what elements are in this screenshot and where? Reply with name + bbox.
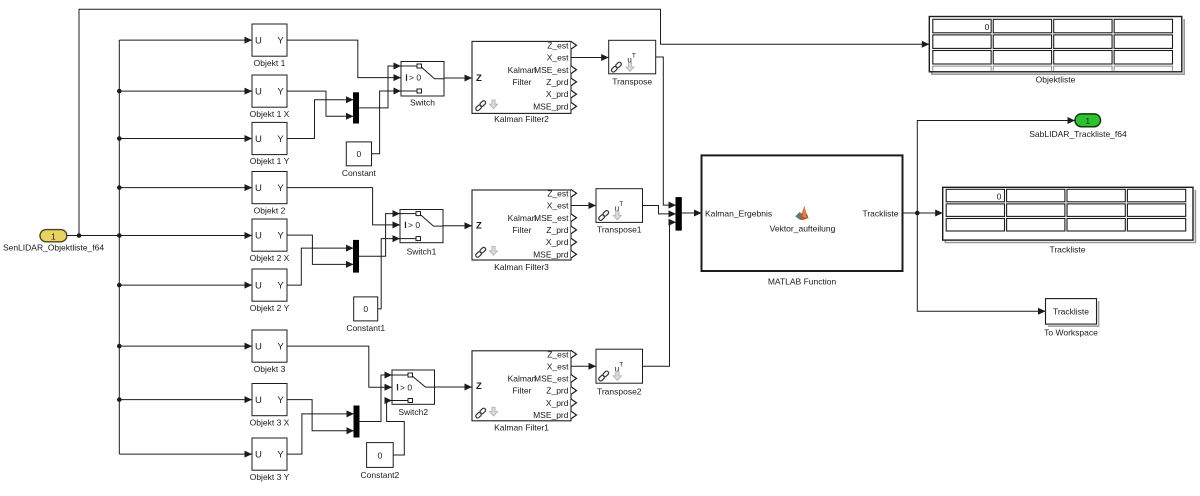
wire branch to To Workspace bbox=[917, 213, 1045, 311]
wire Constant2 to Switch2 in3 bbox=[387, 401, 405, 456]
svg-text:Objekt 1 X: Objekt 1 X bbox=[250, 109, 290, 119]
junction dot bus at Objekt 3 X bbox=[117, 397, 122, 402]
wire bus to Objekt 1 bbox=[119, 39, 252, 41]
svg-text:MSE_est: MSE_est bbox=[534, 374, 569, 384]
svg-text:> 0: > 0 bbox=[409, 73, 421, 83]
svg-text:Transpose1: Transpose1 bbox=[597, 225, 642, 235]
wire Transpose1 to mux M4 in2 bbox=[643, 206, 677, 214]
svg-text:U: U bbox=[255, 341, 262, 352]
svg-text:SenLIDAR_Objektliste_f64: SenLIDAR_Objektliste_f64 bbox=[3, 242, 104, 252]
junction dot bus at Objekt 1 X bbox=[117, 89, 122, 94]
subsystem block Kalman Filter2 bbox=[472, 40, 577, 123]
switch block Switch1 bbox=[400, 210, 443, 257]
svg-text:MSE_prd: MSE_prd bbox=[533, 249, 569, 259]
svg-text:Trackliste: Trackliste bbox=[1053, 306, 1089, 316]
svg-text:Filter: Filter bbox=[513, 225, 532, 235]
selector block Objekt 3 X bbox=[250, 384, 290, 428]
svg-text:0: 0 bbox=[378, 450, 383, 460]
svg-text:U: U bbox=[255, 230, 262, 241]
mux M3 bbox=[354, 406, 359, 437]
To Workspace block bbox=[1044, 299, 1098, 338]
svg-text:Kalman: Kalman bbox=[508, 65, 537, 75]
mux M1 bbox=[354, 93, 359, 123]
svg-text:Kalman_Ergebnis: Kalman_Ergebnis bbox=[705, 208, 772, 218]
selector block Objekt 1 X bbox=[250, 75, 290, 119]
wire Objekt 3 X to mux M3 in2 bbox=[287, 400, 354, 431]
svg-text:Y: Y bbox=[277, 230, 284, 241]
svg-text:To Workspace: To Workspace bbox=[1044, 327, 1098, 337]
wire Objekt 3 to Switch2 control bbox=[287, 346, 392, 387]
wire Kalman Filter1 X_est to Transpose2 bbox=[571, 365, 596, 367]
svg-text:Kalman: Kalman bbox=[508, 374, 537, 384]
output port SabLIDAR_Trackliste_f64 bbox=[1029, 114, 1127, 139]
wire Switch2 to Kalman Filter1 bbox=[435, 386, 473, 388]
svg-text:Z_est: Z_est bbox=[547, 40, 569, 50]
svg-text:U: U bbox=[255, 134, 262, 145]
svg-text:Z: Z bbox=[476, 381, 482, 392]
junction dot MATLAB output bbox=[915, 211, 920, 216]
svg-text:1: 1 bbox=[1085, 116, 1090, 126]
wire Objekt 1 to Switch control bbox=[287, 40, 401, 78]
transpose block Transpose2 bbox=[596, 349, 643, 396]
constant block Constant (0) bbox=[342, 142, 377, 178]
selector block Objekt 2 X bbox=[250, 219, 290, 263]
svg-text:X_prd: X_prd bbox=[546, 398, 569, 408]
svg-text:1: 1 bbox=[51, 231, 56, 241]
wire Kalman Filter2 X_est to Transpose bbox=[571, 57, 609, 59]
wire MATLAB Function to Trackliste display bbox=[903, 212, 943, 214]
wire Kalman Filter3 X_est to Transpose1 bbox=[571, 205, 596, 207]
svg-text:Transpose2: Transpose2 bbox=[597, 387, 642, 397]
wire Switch1 to Kalman Filter3 bbox=[443, 225, 472, 227]
svg-text:MATLAB Function: MATLAB Function bbox=[768, 276, 837, 286]
wire input distribution bus bbox=[118, 40, 120, 454]
wire mux M1 to Switch in1 bbox=[359, 66, 402, 108]
svg-text:Z: Z bbox=[476, 73, 482, 84]
svg-text:Objekt 3 X: Objekt 3 X bbox=[250, 417, 290, 427]
svg-text:Constant1: Constant1 bbox=[346, 323, 385, 333]
svg-text:Objekt 3 Y: Objekt 3 Y bbox=[250, 472, 290, 482]
junction dot bus at Objekt 3 bbox=[117, 344, 122, 349]
svg-text:Switch: Switch bbox=[410, 98, 435, 108]
svg-text:Objekt 3: Objekt 3 bbox=[254, 364, 286, 374]
switch block Switch2 bbox=[392, 370, 435, 417]
wire mux M3 to Switch2 in1 bbox=[359, 375, 392, 422]
mux M4 bbox=[676, 198, 681, 231]
mux M2 bbox=[354, 240, 359, 272]
selector block Objekt 3 bbox=[252, 330, 287, 374]
wire Constant1 to Switch1 in3 bbox=[378, 239, 400, 309]
wire bus to Objekt 1 Y bbox=[119, 138, 252, 140]
svg-text:Kalman Filter3: Kalman Filter3 bbox=[494, 262, 549, 272]
svg-text:U: U bbox=[255, 280, 262, 291]
wire bus to Objekt 3 bbox=[119, 345, 252, 347]
wire bus to Objekt 2 bbox=[119, 187, 252, 189]
svg-text:Y: Y bbox=[277, 134, 284, 145]
wire bus to Objekt 2 Y bbox=[119, 284, 252, 286]
svg-text:MSE_prd: MSE_prd bbox=[533, 410, 569, 420]
svg-text:Z_prd: Z_prd bbox=[546, 386, 568, 396]
wire mux M4 to MATLAB Function bbox=[681, 212, 701, 214]
svg-text:0: 0 bbox=[363, 304, 368, 314]
svg-text:T: T bbox=[632, 53, 636, 60]
svg-text:Y: Y bbox=[277, 183, 284, 194]
svg-text:Kalman: Kalman bbox=[508, 213, 537, 223]
svg-text:Y: Y bbox=[277, 280, 284, 291]
svg-text:Constant2: Constant2 bbox=[361, 470, 400, 480]
switch block Switch bbox=[401, 62, 444, 108]
svg-text:Trackliste: Trackliste bbox=[862, 208, 898, 218]
junction dot bus at Objekt 1 Y bbox=[117, 136, 122, 141]
svg-text:Filter: Filter bbox=[513, 386, 532, 396]
selector block Objekt 1 Y bbox=[250, 122, 290, 166]
svg-text:Z_est: Z_est bbox=[547, 188, 569, 198]
selector block Objekt 1 bbox=[252, 24, 287, 68]
svg-text:Objekt 2 Y: Objekt 2 Y bbox=[250, 303, 290, 313]
constant block Constant1 (0) bbox=[346, 297, 385, 333]
wire bus to Objekt 3 X bbox=[119, 399, 252, 401]
svg-text:MSE_prd: MSE_prd bbox=[533, 101, 569, 111]
transpose block Transpose1 bbox=[596, 189, 643, 235]
wire branch to output port bbox=[917, 121, 1075, 214]
svg-text:> 0: > 0 bbox=[400, 382, 412, 392]
svg-text:X_prd: X_prd bbox=[546, 237, 569, 247]
wire Objekt 1 X to mux M1 in2 bbox=[287, 91, 354, 116]
svg-text:Y: Y bbox=[277, 395, 284, 406]
subsystem block Kalman Filter3 bbox=[472, 188, 577, 271]
junction dot input branch A bbox=[77, 233, 82, 238]
svg-text:Kalman Filter2: Kalman Filter2 bbox=[494, 114, 549, 124]
constant block Constant2 (0) bbox=[361, 443, 400, 481]
MATLAB Function block Vektor_aufteilung bbox=[702, 155, 903, 286]
wire mux M2 to Switch1 in1 bbox=[359, 214, 401, 257]
svg-text:0: 0 bbox=[997, 192, 1002, 202]
display block Objektliste bbox=[929, 17, 1184, 85]
svg-text:MSE_est: MSE_est bbox=[534, 213, 569, 223]
svg-text:Filter: Filter bbox=[513, 77, 532, 87]
junction dot input bus bbox=[117, 233, 122, 238]
svg-text:U: U bbox=[255, 86, 262, 97]
svg-text:0: 0 bbox=[357, 149, 362, 159]
svg-text:U: U bbox=[255, 183, 262, 194]
selector block Objekt 2 bbox=[252, 172, 287, 216]
wire Objekt 1 Y to mux M1 in1 bbox=[287, 100, 354, 139]
svg-text:U: U bbox=[255, 395, 262, 406]
display block Trackliste bbox=[943, 187, 1196, 254]
svg-text:Objektliste: Objektliste bbox=[1036, 75, 1076, 85]
wire bus to Objekt 3 Y bbox=[119, 453, 252, 455]
svg-text:Y: Y bbox=[277, 35, 284, 46]
svg-text:X_prd: X_prd bbox=[546, 89, 569, 99]
svg-text:Y: Y bbox=[277, 449, 284, 460]
svg-text:T: T bbox=[619, 201, 623, 208]
svg-text:SabLIDAR_Trackliste_f64: SabLIDAR_Trackliste_f64 bbox=[1029, 129, 1127, 139]
svg-text:Y: Y bbox=[277, 341, 284, 352]
svg-text:Z_prd: Z_prd bbox=[546, 77, 568, 87]
svg-text:Kalman Filter1: Kalman Filter1 bbox=[494, 423, 549, 433]
svg-text:Objekt 2 X: Objekt 2 X bbox=[250, 253, 290, 263]
wire inport to Objektliste display bbox=[79, 9, 929, 235]
wire Objekt 2 X to mux M2 in2 bbox=[287, 235, 354, 264]
selector block Objekt 3 Y bbox=[250, 438, 290, 482]
svg-text:MSE_est: MSE_est bbox=[534, 65, 569, 75]
wire Switch to Kalman Filter2 bbox=[444, 77, 472, 79]
svg-text:Switch1: Switch1 bbox=[407, 247, 437, 257]
svg-text:Constant: Constant bbox=[342, 168, 377, 178]
wire Objekt 2 Y to mux M2 in1 bbox=[287, 248, 354, 285]
svg-text:Vektor_aufteilung: Vektor_aufteilung bbox=[770, 224, 836, 234]
svg-text:U: U bbox=[255, 35, 262, 46]
wire Transpose2 to mux M4 in3 bbox=[643, 222, 677, 366]
svg-text:Z_prd: Z_prd bbox=[546, 225, 568, 235]
svg-text:X_est: X_est bbox=[547, 201, 569, 211]
svg-text:Objekt 1: Objekt 1 bbox=[254, 58, 286, 68]
svg-text:Objekt 1 Y: Objekt 1 Y bbox=[250, 156, 290, 166]
wire Transpose to mux M4 in1 bbox=[656, 57, 676, 205]
wire inport to Objekt 2 X bbox=[67, 235, 252, 237]
wire Objekt 3 Y to mux M3 in1 bbox=[287, 414, 354, 454]
svg-text:Z: Z bbox=[476, 220, 482, 231]
wire Objekt 2 to Switch1 control bbox=[287, 188, 400, 225]
svg-text:Trackliste: Trackliste bbox=[1049, 244, 1085, 254]
svg-text:> 0: > 0 bbox=[408, 220, 420, 230]
svg-text:Y: Y bbox=[277, 86, 284, 97]
svg-text:Switch2: Switch2 bbox=[398, 407, 428, 417]
wire bus to Objekt 1 X bbox=[119, 90, 252, 92]
transpose block Transpose bbox=[609, 40, 656, 86]
junction dot bus at Objekt 2 Y bbox=[117, 283, 122, 288]
svg-text:Objekt 2: Objekt 2 bbox=[254, 205, 286, 215]
svg-text:X_est: X_est bbox=[547, 53, 569, 63]
svg-text:T: T bbox=[619, 361, 623, 368]
svg-text:U: U bbox=[255, 449, 262, 460]
junction dot bus at Objekt 2 bbox=[117, 185, 122, 190]
wire Constant to Switch in3 bbox=[372, 91, 402, 154]
subsystem block Kalman Filter1 bbox=[472, 349, 577, 432]
selector block Objekt 2 Y bbox=[250, 269, 290, 313]
svg-text:0: 0 bbox=[985, 22, 990, 32]
svg-text:X_est: X_est bbox=[547, 361, 569, 371]
svg-text:Z_est: Z_est bbox=[547, 349, 569, 359]
svg-text:Transpose: Transpose bbox=[612, 76, 652, 86]
input port SenLIDAR_Objektliste_f64 bbox=[3, 230, 104, 253]
